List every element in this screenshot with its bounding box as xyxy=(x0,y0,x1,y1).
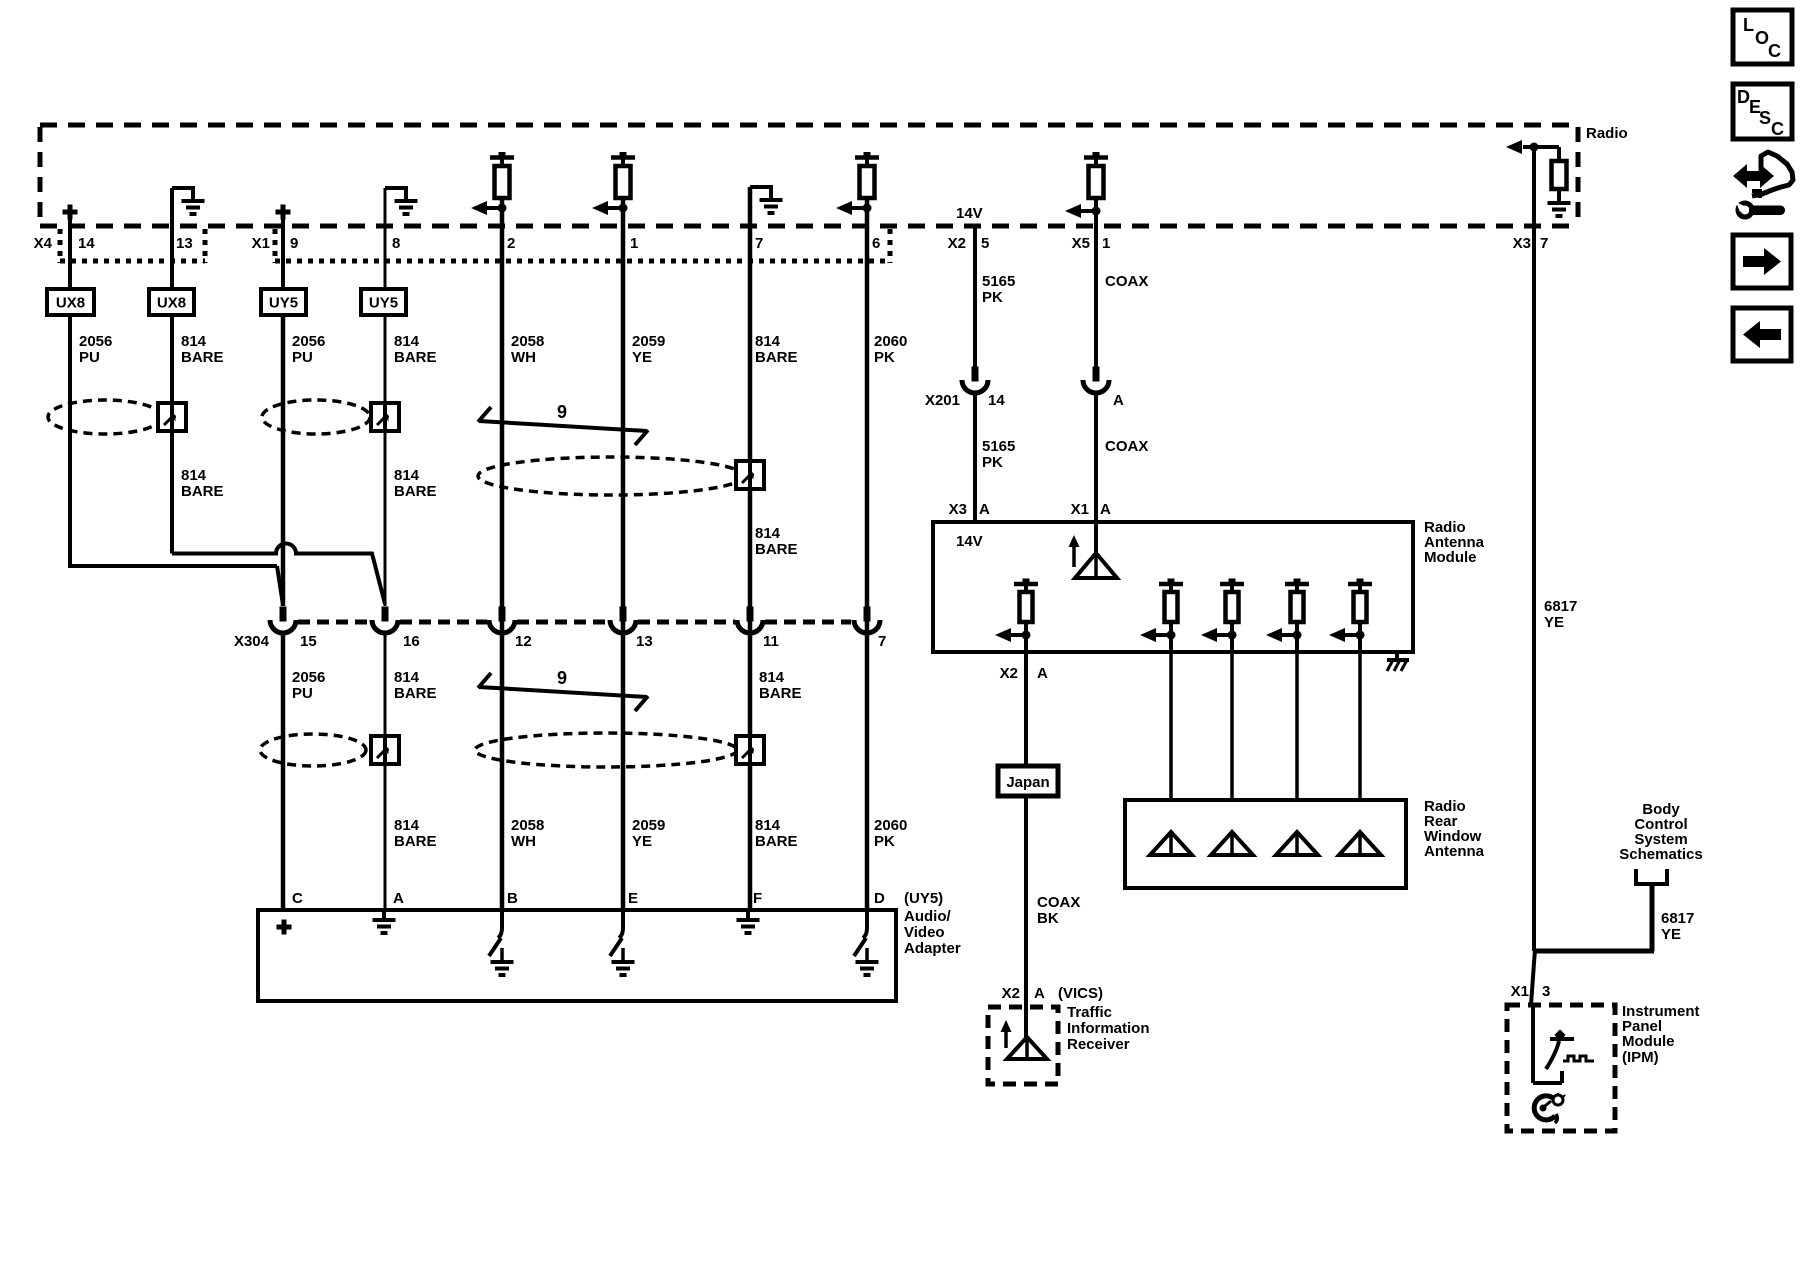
wire 2060 PK xyxy=(865,198,870,910)
svg-text:PK: PK xyxy=(982,454,1003,471)
option box UX8 wire 1 xyxy=(47,289,94,315)
shield ellipse lower left xyxy=(260,734,366,766)
svg-text:6817: 6817 xyxy=(1544,598,1577,615)
svg-text:UY5: UY5 xyxy=(269,295,298,312)
svg-text:BARE: BARE xyxy=(755,833,798,850)
svg-text:X1: X1 xyxy=(1511,983,1529,1000)
connector X4 labels xyxy=(34,235,193,252)
svg-text:11: 11 xyxy=(763,633,779,650)
Audio Video Adapter box xyxy=(258,910,896,1001)
wire 2058 WH xyxy=(500,198,505,910)
svg-text:8: 8 xyxy=(392,235,400,252)
svg-text:6817: 6817 xyxy=(1661,910,1694,927)
svg-text:X3: X3 xyxy=(1513,235,1531,252)
svg-text:2059: 2059 xyxy=(632,333,665,350)
svg-text:9: 9 xyxy=(557,402,567,422)
svg-text:814: 814 xyxy=(759,669,785,686)
svg-text:Traffic: Traffic xyxy=(1067,1004,1112,1021)
svg-text:6: 6 xyxy=(872,235,880,252)
connector X304 pin 7 xyxy=(854,607,880,634)
module internal wire 4 xyxy=(1295,635,1299,652)
svg-text:5165: 5165 xyxy=(982,273,1015,290)
connector X304 pin 13 xyxy=(610,607,636,634)
label 2060 PK lower xyxy=(874,817,907,850)
svg-text:16: 16 xyxy=(403,633,420,650)
Radio Rear Window Antenna box xyxy=(1125,800,1406,888)
svg-text:D: D xyxy=(874,890,885,907)
coax wire upper xyxy=(1094,198,1098,367)
Traffic Information Receiver dashed box xyxy=(988,1007,1058,1084)
connector X5 pin 1 label xyxy=(1072,235,1111,252)
rear antenna wire 1 xyxy=(1169,652,1173,832)
connector X201 labels xyxy=(925,392,1005,409)
svg-text:2058: 2058 xyxy=(511,817,544,834)
svg-text:3: 3 xyxy=(1542,983,1550,1000)
label 814 BARE wire 2 upper xyxy=(181,333,224,366)
shield drain splice wire 7 upper xyxy=(736,461,764,489)
svg-text:A: A xyxy=(1034,985,1045,1002)
connector view icon xyxy=(1733,152,1793,217)
connector X304 labels xyxy=(234,633,886,650)
rear antenna wire 4 xyxy=(1358,652,1362,832)
svg-text:YE: YE xyxy=(632,349,652,366)
LOC icon box xyxy=(1733,10,1792,64)
resistor at radio pin 2 xyxy=(471,152,514,215)
module internal resistor 1 xyxy=(995,579,1038,643)
label 814 BARE below X304 pin11 xyxy=(759,669,802,702)
ground symbol at radio X1-8 xyxy=(385,186,418,214)
svg-text:2056: 2056 xyxy=(292,333,325,350)
wire 5165 PK lower xyxy=(973,394,977,522)
svg-text:Audio/: Audio/ xyxy=(904,908,951,925)
label 6817 YE lower xyxy=(1661,910,1694,943)
svg-text:2056: 2056 xyxy=(79,333,112,350)
svg-text:PK: PK xyxy=(982,289,1003,306)
svg-text:14V: 14V xyxy=(956,533,983,550)
IPM label xyxy=(1622,1003,1700,1066)
ground inside AVA pin F xyxy=(737,910,760,933)
svg-text:814: 814 xyxy=(394,817,420,834)
svg-text:BARE: BARE xyxy=(755,541,798,558)
coax wire lower xyxy=(1094,394,1098,522)
IPM speedometer icon xyxy=(1534,1093,1565,1123)
svg-text:E: E xyxy=(628,890,638,907)
svg-text:Information: Information xyxy=(1067,1020,1150,1037)
shield ellipse wires 5-7 xyxy=(478,457,744,495)
svg-text:WH: WH xyxy=(511,349,536,366)
IPM internal wire xyxy=(1533,1005,1562,1083)
svg-text:X201: X201 xyxy=(925,392,960,409)
svg-text:814: 814 xyxy=(394,467,420,484)
Radio module dashed outline box xyxy=(40,125,1578,226)
connector X1 labels xyxy=(252,235,881,252)
shield drain splice wire 16 xyxy=(371,736,399,764)
svg-text:814: 814 xyxy=(394,669,420,686)
svg-text:X4: X4 xyxy=(34,235,53,252)
svg-text:PU: PU xyxy=(292,349,313,366)
svg-text:YE: YE xyxy=(632,833,652,850)
coax BK wire Japan to receiver xyxy=(1024,796,1028,1037)
svg-text:Japan: Japan xyxy=(1006,774,1049,791)
svg-text:UX8: UX8 xyxy=(157,295,186,312)
connector X304 pin 16 xyxy=(372,607,398,634)
label 814 BARE lower A xyxy=(394,817,437,850)
svg-text:BARE: BARE xyxy=(755,349,798,366)
svg-text:814: 814 xyxy=(181,333,207,350)
ground below switch pin B xyxy=(491,948,514,975)
switch inside AVA pin B xyxy=(489,910,502,956)
svg-text:C: C xyxy=(1768,41,1781,61)
label COAX upper xyxy=(1105,273,1148,290)
svg-text:O: O xyxy=(1755,28,1769,48)
svg-text:2060: 2060 xyxy=(874,817,907,834)
label 2056 PU wire 1 xyxy=(79,333,112,366)
module internal wire 2 xyxy=(1169,635,1173,652)
svg-text:BARE: BARE xyxy=(394,483,437,500)
resistor at radio pin X5-1 xyxy=(1065,152,1108,218)
module internal resistor 2 xyxy=(1140,579,1183,643)
off-page bracket xyxy=(1636,869,1667,884)
svg-text:Adapter: Adapter xyxy=(904,940,961,957)
svg-text:12: 12 xyxy=(515,633,532,650)
arrow into radio at X3-7 xyxy=(1506,140,1539,154)
svg-text:YE: YE xyxy=(1544,614,1564,631)
connector X304 dotted line xyxy=(298,620,851,625)
svg-text:(UY5): (UY5) xyxy=(904,890,943,907)
connector X201 pin A xyxy=(1083,367,1109,394)
svg-text:15: 15 xyxy=(300,633,317,650)
Japan option box xyxy=(998,766,1058,796)
module internal resistor 4 xyxy=(1266,579,1309,643)
wire into IPM X1-3 xyxy=(1531,949,1535,1005)
svg-text:PU: PU xyxy=(292,685,313,702)
Radio Antenna Module box xyxy=(933,522,1413,652)
label 9 upper xyxy=(557,402,567,422)
module pin X1 A labels xyxy=(1071,501,1111,518)
label 9 lower xyxy=(557,668,567,688)
svg-text:814: 814 xyxy=(394,333,420,350)
IPM gauge symbol xyxy=(1546,1029,1594,1069)
svg-text:2056: 2056 xyxy=(292,669,325,686)
radio internal resistor to ground xyxy=(1534,147,1571,216)
module chassis ground xyxy=(1387,652,1409,671)
svg-text:A: A xyxy=(979,501,990,518)
twisted pair symbol upper xyxy=(478,407,648,445)
label 2056 PU wire 3 xyxy=(292,333,325,366)
svg-text:COAX: COAX xyxy=(1105,273,1148,290)
svg-text:Antenna: Antenna xyxy=(1424,843,1485,860)
shield ellipse wire 1-2 xyxy=(48,400,162,434)
svg-text:13: 13 xyxy=(636,633,653,650)
module internal wire 3 xyxy=(1230,635,1234,652)
label 814 BARE lower F xyxy=(755,817,798,850)
connector X3 pin 7 label xyxy=(1513,235,1549,252)
module pin X3 A labels xyxy=(949,501,990,518)
label 2056 PU below X304 xyxy=(292,669,325,702)
svg-text:PU: PU xyxy=(79,349,100,366)
label COAX BK xyxy=(1037,894,1080,927)
label 5165 PK upper xyxy=(982,273,1015,306)
svg-text:S: S xyxy=(1759,108,1771,128)
resistor at radio pin 1 xyxy=(592,152,635,215)
svg-text:7: 7 xyxy=(755,235,763,252)
svg-text:7: 7 xyxy=(1540,235,1548,252)
connector X304 pin 11 xyxy=(737,607,763,634)
label 6817 YE upper xyxy=(1544,598,1577,631)
svg-text:2060: 2060 xyxy=(874,333,907,350)
wire 814 BARE from X4-13 xyxy=(172,188,385,604)
svg-text:2059: 2059 xyxy=(632,817,665,834)
rear antenna wire 2 xyxy=(1230,652,1234,832)
svg-text:814: 814 xyxy=(755,525,781,542)
rear window antenna symbol 3 xyxy=(1276,832,1318,855)
receiver pin X2 A labels xyxy=(1002,985,1103,1002)
svg-text:UY5: UY5 xyxy=(369,295,398,312)
svg-text:814: 814 xyxy=(181,467,207,484)
wire 6817 YE xyxy=(1532,147,1536,951)
svg-text:2: 2 xyxy=(507,235,515,252)
ground below switch pin E xyxy=(612,948,635,975)
coax BK wire module to Japan xyxy=(1024,652,1028,766)
connector X4 dotted box xyxy=(60,229,205,263)
wire 814 BARE below X304 pin16 xyxy=(384,633,387,910)
AVA pin letters xyxy=(292,890,885,907)
svg-text:B: B xyxy=(507,890,518,907)
up arrow inside module xyxy=(1069,535,1080,567)
wire 2056 PU from X4-14 xyxy=(70,219,283,605)
rear antenna wire 3 xyxy=(1295,652,1299,832)
label COAX lower xyxy=(1105,438,1148,455)
label 2058 WH lower xyxy=(511,817,544,850)
antenna symbol inside module xyxy=(1075,522,1117,578)
label 2060 PK upper xyxy=(874,333,907,366)
label 14V inside module xyxy=(956,533,983,550)
svg-text:PK: PK xyxy=(874,349,895,366)
back arrow icon box xyxy=(1733,308,1791,361)
svg-text:A: A xyxy=(393,890,404,907)
svg-text:A: A xyxy=(1100,501,1111,518)
svg-text:(VICS): (VICS) xyxy=(1058,985,1103,1002)
svg-text:BARE: BARE xyxy=(394,685,437,702)
label 2059 YE upper xyxy=(632,333,665,366)
option box UX8 wire 2 xyxy=(149,289,194,315)
svg-text:BARE: BARE xyxy=(181,349,224,366)
label 814 BARE below X304 pin16 xyxy=(394,669,437,702)
svg-text:C: C xyxy=(292,890,303,907)
wire 2059 YE xyxy=(621,198,626,910)
wire 5165 PK upper xyxy=(973,226,977,367)
forward arrow icon box xyxy=(1733,235,1791,288)
svg-text:BARE: BARE xyxy=(394,349,437,366)
module internal wire 1 xyxy=(1024,635,1028,652)
svg-text:(IPM): (IPM) xyxy=(1622,1049,1659,1066)
svg-text:COAX: COAX xyxy=(1105,438,1148,455)
IPM pin X1 3 labels xyxy=(1511,983,1551,1000)
connector X304 pin 15 xyxy=(270,607,296,634)
wire 2056 PU from X1-9 xyxy=(281,219,285,606)
svg-text:9: 9 xyxy=(557,668,567,688)
svg-text:Module: Module xyxy=(1424,549,1477,566)
option box UY5 wire 4 xyxy=(361,289,406,315)
connector X1 dotted box xyxy=(275,229,890,263)
svg-text:X1: X1 xyxy=(1071,501,1089,518)
svg-text:UX8: UX8 xyxy=(56,295,85,312)
svg-text:BARE: BARE xyxy=(759,685,802,702)
svg-text:Receiver: Receiver xyxy=(1067,1036,1130,1053)
svg-text:COAX: COAX xyxy=(1037,894,1080,911)
battery plus symbol X1 pin 9 xyxy=(276,205,291,220)
svg-text:A: A xyxy=(1113,392,1124,409)
svg-text:F: F xyxy=(753,890,762,907)
svg-text:X2: X2 xyxy=(1002,985,1020,1002)
connector X201 pin A label xyxy=(1113,392,1124,409)
Body Control System Schematics label xyxy=(1619,801,1702,863)
AVA title xyxy=(904,890,961,957)
option box UY5 wire 3 xyxy=(261,289,306,315)
Instrument Panel Module dashed box xyxy=(1507,1005,1615,1131)
plus symbol inside AVA pin C xyxy=(277,920,292,935)
module pin X2 A labels xyxy=(1000,665,1048,682)
receiver up arrow xyxy=(1001,1020,1012,1048)
svg-text:1: 1 xyxy=(1102,235,1110,252)
connector X304 pin 12 xyxy=(489,607,515,634)
wire 814 BARE pin 7 xyxy=(748,187,753,910)
shield ellipse lower right xyxy=(475,733,737,767)
battery plus symbol X4 pin 14 xyxy=(63,205,78,220)
svg-text:X2: X2 xyxy=(948,235,966,252)
svg-text:YE: YE xyxy=(1661,926,1681,943)
Radio label xyxy=(1586,125,1628,142)
shield drain splice wire 2 xyxy=(158,403,186,431)
svg-text:BARE: BARE xyxy=(394,833,437,850)
svg-text:14: 14 xyxy=(988,392,1005,409)
svg-text:WH: WH xyxy=(511,833,536,850)
label 5165 PK lower xyxy=(982,438,1015,471)
switch inside AVA pin D xyxy=(854,910,867,956)
svg-text:5: 5 xyxy=(981,235,989,252)
module internal resistor 5 xyxy=(1329,579,1372,643)
svg-text:A: A xyxy=(1037,665,1048,682)
label 814 BARE wire 4 lower xyxy=(394,467,437,500)
wire 6817 YE to BCS xyxy=(1534,884,1654,951)
ground below switch pin D xyxy=(856,948,879,975)
svg-text:C: C xyxy=(1771,119,1784,139)
svg-text:814: 814 xyxy=(755,817,781,834)
rear window antenna symbol 2 xyxy=(1211,832,1253,855)
svg-text:PK: PK xyxy=(874,833,895,850)
ground symbol at radio X1-7 xyxy=(750,185,783,213)
shield ellipse wire 3-4 xyxy=(262,400,370,434)
label 814 BARE wire 7 mid xyxy=(755,525,798,558)
module internal resistor 3 xyxy=(1201,579,1244,643)
receiver antenna symbol xyxy=(1007,1037,1047,1059)
svg-text:Radio: Radio xyxy=(1586,125,1628,142)
svg-text:13: 13 xyxy=(176,235,193,252)
svg-text:X5: X5 xyxy=(1072,235,1090,252)
14V label at radio X2 pin xyxy=(956,205,983,222)
twisted pair symbol lower xyxy=(478,673,648,711)
module internal wire 5 xyxy=(1358,635,1362,652)
label 814 BARE wire 7 upper xyxy=(755,333,798,366)
svg-text:Video: Video xyxy=(904,924,945,941)
shield drain splice wire 11 xyxy=(736,736,764,764)
svg-text:14: 14 xyxy=(78,235,95,252)
svg-text:5165: 5165 xyxy=(982,438,1015,455)
Traffic Information Receiver label xyxy=(1067,1004,1150,1053)
wire 814 BARE from X1-8 xyxy=(384,188,387,606)
svg-text:X1: X1 xyxy=(252,235,270,252)
svg-text:9: 9 xyxy=(290,235,298,252)
svg-text:BARE: BARE xyxy=(181,483,224,500)
switch inside AVA pin E xyxy=(610,910,623,956)
svg-text:X3: X3 xyxy=(949,501,967,518)
svg-text:1: 1 xyxy=(630,235,638,252)
rear window antenna symbol 4 xyxy=(1339,832,1381,855)
label 814 BARE wire 4 upper xyxy=(394,333,437,366)
ground symbol at radio X4-13 xyxy=(172,186,205,214)
Radio Antenna Module label xyxy=(1424,519,1485,566)
svg-text:X304: X304 xyxy=(234,633,270,650)
svg-text:Module: Module xyxy=(1622,1033,1675,1050)
svg-text:X2: X2 xyxy=(1000,665,1018,682)
resistor at radio pin 6 xyxy=(836,152,879,215)
Radio Rear Window Antenna label xyxy=(1424,798,1485,860)
label 814 BARE wire 2 lower xyxy=(181,467,224,500)
connector X201 pin 14 xyxy=(962,367,988,394)
rear window antenna symbol 1 xyxy=(1150,832,1192,855)
label 2059 YE lower xyxy=(632,817,665,850)
ground inside AVA pin A xyxy=(373,910,396,933)
svg-text:2058: 2058 xyxy=(511,333,544,350)
wire 2056 PU below X304 xyxy=(281,633,286,910)
svg-text:Schematics: Schematics xyxy=(1619,846,1702,863)
shield drain splice wire 4 xyxy=(371,403,399,431)
svg-text:14V: 14V xyxy=(956,205,983,222)
svg-text:L: L xyxy=(1743,15,1754,35)
label 2058 WH upper xyxy=(511,333,544,366)
svg-text:814: 814 xyxy=(755,333,781,350)
svg-text:7: 7 xyxy=(878,633,886,650)
svg-text:BK: BK xyxy=(1037,910,1059,927)
DESC icon box xyxy=(1733,84,1792,139)
connector X2 pin 5 label xyxy=(948,235,990,252)
